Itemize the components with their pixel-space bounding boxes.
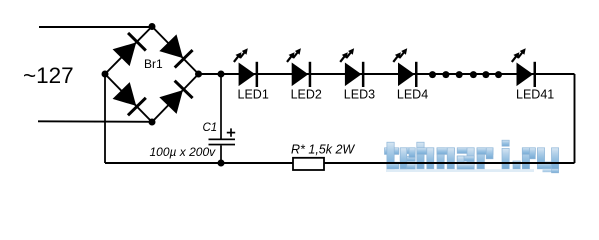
svg-text:C1: C1 bbox=[203, 122, 218, 134]
svg-text:LED41: LED41 bbox=[516, 88, 554, 102]
svg-text:Br1: Br1 bbox=[144, 57, 163, 71]
svg-text:LED3: LED3 bbox=[344, 88, 375, 102]
svg-text:LED2: LED2 bbox=[291, 88, 322, 102]
svg-text:LED1: LED1 bbox=[238, 88, 269, 102]
svg-text:~127: ~127 bbox=[23, 63, 74, 88]
svg-text:R* 1,5k 2W: R* 1,5k 2W bbox=[291, 142, 355, 156]
svg-text:LED4: LED4 bbox=[397, 88, 428, 102]
svg-text:100µ x 200v: 100µ x 200v bbox=[150, 145, 217, 159]
